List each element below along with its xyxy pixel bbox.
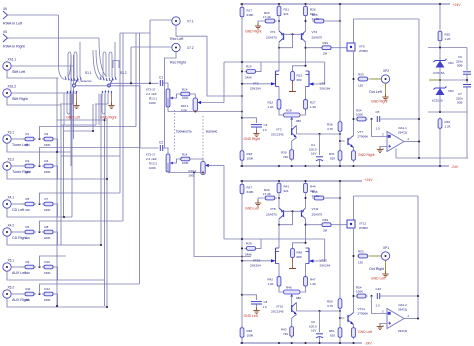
resistor R44 920 xyxy=(304,181,308,195)
wire bus x71 xyxy=(70,55,72,166)
wire Tuner Left bus xyxy=(40,127,137,140)
wire C8 down xyxy=(256,304,258,309)
svg-text:1.2K: 1.2K xyxy=(445,124,451,128)
wire olive connector gnd xyxy=(385,83,387,96)
wire R26 to VT4 xyxy=(305,195,307,208)
svg-text:2.2 mkF: 2.2 mkF xyxy=(146,92,157,96)
wire link y125 xyxy=(61,124,96,126)
wire Tuner Right shield loop xyxy=(7,170,107,179)
svg-text:VT14: VT14 xyxy=(358,307,366,311)
wire S1.2 wiper out xyxy=(111,82,159,84)
wire R23 top xyxy=(293,243,306,248)
svg-text:VT8: VT8 xyxy=(270,207,276,211)
resistor R17 640K xyxy=(240,5,244,19)
svg-text:R11: R11 xyxy=(26,287,31,291)
wire olive to connector xyxy=(370,78,382,80)
junction bottom signal xyxy=(241,255,243,257)
wire R21 to VT1 xyxy=(278,195,280,208)
wire R23 top xyxy=(293,66,306,71)
wire y62 long xyxy=(224,61,325,63)
junction base tie xyxy=(291,210,293,212)
transistor VT3 2SC1345 xyxy=(292,126,297,138)
svg-text:GND Left: GND Left xyxy=(371,277,385,281)
wire VT7 emit xyxy=(353,325,355,328)
junction y131 xyxy=(92,130,94,132)
junction -rail x319.5 xyxy=(318,165,320,167)
junction C4 tap xyxy=(318,310,320,312)
wire C5 right xyxy=(380,118,419,120)
wire bus x72 xyxy=(71,94,73,217)
wire bus x139 xyxy=(139,33,141,284)
junction loop cd left xyxy=(63,216,65,218)
wire AUX Right bus xyxy=(40,284,140,294)
ground at op-amp DA1.1 xyxy=(377,147,383,153)
junction R34 C5 xyxy=(370,118,372,120)
connector X7.2 Rec Right xyxy=(172,43,180,51)
junction R19 left xyxy=(241,247,243,249)
capacitor C3 1.0 xyxy=(251,125,262,127)
resistor R53 130 xyxy=(357,254,369,258)
wire bottom signal x194 xyxy=(194,173,251,257)
wire Rec Right drop x131 xyxy=(130,47,132,85)
wire x467 mid xyxy=(466,74,468,83)
wire AUX Left shield loop xyxy=(7,271,105,280)
junction gate left xyxy=(241,260,243,262)
transistor VT5 2SK264 JFET xyxy=(306,71,314,87)
wire VT5 gate feed xyxy=(314,62,325,84)
wire VT5 gate feed xyxy=(314,239,325,261)
resistor R7 180K xyxy=(42,202,55,206)
svg-text:180K: 180K xyxy=(44,208,51,212)
ground at C3 xyxy=(253,131,259,137)
wire VT7 base line xyxy=(340,317,345,319)
wire y134 to x340 xyxy=(297,133,341,135)
wire R40 to gnd xyxy=(258,198,263,202)
capacitor C9 100.0 16V xyxy=(316,334,323,338)
wire Rec Left to balance tap xyxy=(176,25,242,96)
ground at op-amp DA1.2 xyxy=(377,324,383,330)
junction -rail x305.5 xyxy=(304,342,306,344)
resistor R11 44K xyxy=(23,292,36,296)
wire base tie xyxy=(284,210,302,212)
wire base tie xyxy=(284,33,302,35)
svg-text:50В: 50В xyxy=(457,64,462,68)
wire C1 to R13.1 xyxy=(163,83,168,89)
resistor R29 2M xyxy=(321,46,333,50)
wire y62 long xyxy=(224,238,325,240)
svg-text:VT16: VT16 xyxy=(276,305,284,309)
wire AUX Right to R11 xyxy=(11,293,25,295)
svg-text:R53: R53 xyxy=(358,249,364,253)
wire R29 right xyxy=(332,47,348,49)
transistor VT13 2SK264 JFET xyxy=(306,248,314,264)
wire R19 up xyxy=(258,239,262,248)
wire bus x101 xyxy=(100,94,102,245)
svg-text:C2: C2 xyxy=(159,141,163,145)
svg-text:R14: R14 xyxy=(182,152,188,156)
junction rail R21 xyxy=(278,180,280,182)
wire -24V rail chtop xyxy=(240,165,449,167)
potentiometer R16.1 200K xyxy=(193,98,197,111)
wire base down xyxy=(279,34,293,47)
wire CD Right out jog xyxy=(55,232,58,245)
svg-text:R28: R28 xyxy=(286,109,292,113)
wire Rec Left drop x150 xyxy=(149,20,151,83)
svg-text:VT1: VT1 xyxy=(270,30,276,34)
junction caps mid xyxy=(466,79,468,81)
svg-text:RIAA In Right: RIAA In Right xyxy=(3,45,25,49)
wire x224 drop xyxy=(223,62,225,103)
wire column x242 xyxy=(241,4,243,166)
svg-text:R29: R29 xyxy=(323,41,329,45)
wire VT3 emit xyxy=(292,138,297,149)
svg-text:180K: 180K xyxy=(44,236,51,240)
wire y112 link xyxy=(428,111,467,113)
junction -rail x242 xyxy=(241,342,243,344)
svg-text:2SC1345: 2SC1345 xyxy=(271,310,284,314)
svg-text:2П903: 2П903 xyxy=(359,49,368,53)
wire op-amp -in xyxy=(380,147,387,149)
svg-text:44K: 44K xyxy=(25,236,30,240)
wire R22 to pot xyxy=(279,287,283,292)
connector X5.2 AUX Right xyxy=(3,290,11,298)
transistor VT1 2SA970 xyxy=(279,31,284,42)
wire Rec Left left xyxy=(150,19,172,21)
wire RIAA In Right xyxy=(8,37,100,39)
junction op-amp out xyxy=(418,140,420,142)
svg-text:+24V: +24V xyxy=(453,3,462,7)
svg-text:Stift Right: Stift Right xyxy=(12,97,28,101)
wire x440 to VD1 xyxy=(439,42,441,60)
junction -rail x305.5 xyxy=(304,165,306,167)
svg-text:VD2: VD2 xyxy=(448,89,454,93)
svg-text:44K: 44K xyxy=(25,271,30,275)
junction -rail x279 xyxy=(278,165,280,167)
resistor R4 180K xyxy=(42,164,55,168)
svg-text:VT7: VT7 xyxy=(358,130,364,134)
wire fb to hypotenuse xyxy=(395,149,397,159)
junction VT7 base xyxy=(339,140,341,142)
junction gate left xyxy=(241,83,243,85)
resistor R49 2M xyxy=(321,223,333,227)
svg-text:R13.2: R13.2 xyxy=(149,162,157,166)
ground at R23 xyxy=(292,81,294,92)
wire Stift Right shield loop xyxy=(7,97,61,105)
wire +24V rail chtop xyxy=(240,3,450,5)
wire x467 top xyxy=(466,48,468,71)
wire R14 to balance pot xyxy=(192,159,203,163)
junction C4 tap xyxy=(318,133,320,135)
svg-text:1.0: 1.0 xyxy=(263,305,267,309)
junction column C5 xyxy=(418,118,420,120)
svg-text:240K: 240K xyxy=(245,253,252,257)
svg-text:+24V: +24V xyxy=(365,178,374,182)
junction loop tuner xyxy=(56,151,58,153)
junction R20 right xyxy=(278,20,280,22)
svg-text:RIAA In Left: RIAA In Left xyxy=(3,22,22,26)
wire volume bottoms y172.5 xyxy=(167,163,169,173)
wire column x340 xyxy=(339,181,341,343)
svg-text:1.2K: 1.2K xyxy=(445,37,451,41)
wire C2 to R13.2 xyxy=(163,148,168,154)
capacitor C1 2.2mkF xyxy=(160,80,162,86)
svg-text:100K: 100K xyxy=(247,333,254,337)
connector X7.1 Rec Left xyxy=(172,17,180,25)
op-amp DA1.2 xyxy=(387,309,404,329)
wire CD Left to R5 xyxy=(11,203,25,205)
resistor R39 240K xyxy=(245,247,258,251)
svg-text:2.2 mkF: 2.2 mkF xyxy=(146,157,157,161)
junction +rail x242 xyxy=(241,3,243,5)
wire VT4 coll down xyxy=(305,219,307,243)
svg-text:XP2: XP2 xyxy=(383,69,389,73)
svg-text:2SA970: 2SA970 xyxy=(312,213,323,217)
wire C4 lead xyxy=(319,134,321,155)
svg-text:2947Д: 2947Д xyxy=(398,308,407,312)
svg-text:2SA970: 2SA970 xyxy=(266,213,277,217)
wire x58 drop to S1.1 xyxy=(58,15,60,66)
svg-text:730: 730 xyxy=(283,332,288,336)
wire op-amp out xyxy=(404,318,418,320)
wire R25 right xyxy=(326,20,340,22)
wire R22 to pot xyxy=(279,110,283,115)
svg-text:X5.1: X5.1 xyxy=(8,259,15,263)
wire Rec Right to bottom xyxy=(165,52,177,148)
wire CD Right to R6 xyxy=(11,231,25,233)
junction y111 x242 xyxy=(241,110,243,112)
junction rec right tap xyxy=(130,82,132,84)
svg-text:180K: 180K xyxy=(44,298,51,302)
wire VT4 coll down xyxy=(305,42,307,66)
svg-text:100K: 100K xyxy=(356,290,363,294)
wire +24V rail chbot xyxy=(240,180,362,182)
junction x440 rail xyxy=(439,3,441,5)
wire bus x61 xyxy=(60,105,62,245)
resistor R6 44K xyxy=(23,230,36,234)
ground at R20 xyxy=(255,23,261,29)
wire y158 left part xyxy=(396,157,419,159)
op-amp DA1.1 xyxy=(387,132,404,152)
svg-text:921: 921 xyxy=(284,189,289,193)
resistor R10 180K xyxy=(42,265,55,269)
wire R16.2 wiper out xyxy=(209,164,224,166)
svg-text:17.4K: 17.4K xyxy=(263,192,271,196)
transistor VT16 2SC1345 xyxy=(292,303,297,315)
wire C4 down xyxy=(319,160,321,166)
wire link y33 xyxy=(120,32,150,34)
svg-text:R49: R49 xyxy=(323,218,329,222)
resistor R45 17.4K xyxy=(312,196,326,200)
resistor R48 680 xyxy=(291,247,295,260)
svg-text:R1: R1 xyxy=(26,132,30,136)
svg-text:Out Right: Out Right xyxy=(369,267,384,271)
connector X4.2 CD Right xyxy=(3,228,11,236)
wire caps mid tie xyxy=(440,79,467,81)
connector XS1.2 Stift Right xyxy=(3,89,11,97)
svg-text:X4.1: X4.1 xyxy=(8,196,15,200)
switch S1.2 input selector xyxy=(95,42,117,125)
junction column C5 xyxy=(417,295,419,297)
junction VT1 coll xyxy=(278,47,280,49)
resistor R37 640K xyxy=(240,182,244,196)
wire right column x418 xyxy=(417,196,419,319)
svg-text:2SK264: 2SK264 xyxy=(320,263,331,267)
svg-text:XP1: XP1 xyxy=(383,246,389,250)
junction loop cd right xyxy=(100,244,102,246)
svg-text:C8: C8 xyxy=(264,300,268,304)
junction rail R26 xyxy=(304,180,306,182)
junction R34 xyxy=(352,118,354,120)
svg-text:1.2K: 1.2K xyxy=(268,105,274,109)
svg-text:4.7K: 4.7K xyxy=(327,127,333,131)
svg-text:VT3: VT3 xyxy=(276,128,282,132)
wire staple S1.2 feed xyxy=(113,61,119,69)
svg-text:2SK264: 2SK264 xyxy=(320,86,331,90)
resistor R19 240K xyxy=(245,70,258,74)
junction R29 tap xyxy=(304,224,306,226)
ground at XP2 xyxy=(382,94,388,100)
wire Stift Left signal xyxy=(11,65,73,67)
wire C5 right xyxy=(380,295,418,297)
svg-text:R46: R46 xyxy=(286,286,292,290)
svg-text:VT10: VT10 xyxy=(253,259,261,263)
svg-text:GND Left: GND Left xyxy=(245,207,259,211)
wire C4 down xyxy=(319,337,321,343)
wire VT5 src down xyxy=(305,87,307,99)
transistor VT2 2SK264 JFET xyxy=(242,71,279,87)
wire R27 to pot xyxy=(301,110,306,115)
junction CD Left tap xyxy=(38,203,40,205)
wire R21 to VT1 xyxy=(278,18,280,31)
wire x440 top xyxy=(439,4,441,29)
junction rec left tap xyxy=(149,82,151,84)
wire VT1 coll down xyxy=(278,219,280,248)
svg-text:640K: 640K xyxy=(247,13,254,17)
wire C4 lead xyxy=(319,311,321,332)
wire S1.1 wiper out xyxy=(76,86,159,148)
connector X3.1 Tuner Left xyxy=(3,135,11,143)
wire Tuner Left to R1 xyxy=(11,138,25,140)
wire op-amp +in xyxy=(372,119,388,137)
svg-text:R12: R12 xyxy=(45,287,51,291)
junction -rail x340 xyxy=(339,342,341,344)
ground at switch S1.1 input selector xyxy=(76,94,78,105)
svg-text:100K: 100K xyxy=(247,156,254,160)
svg-text:XS1.2: XS1.2 xyxy=(8,85,17,89)
transistor VT7 2T908A xyxy=(348,136,354,148)
wire VT2 src down xyxy=(278,87,280,99)
svg-text:GND Right: GND Right xyxy=(371,100,387,104)
resistor R42 1.2K xyxy=(277,275,281,289)
svg-text:620: 620 xyxy=(330,156,335,160)
svg-text:CD Left: CD Left xyxy=(12,208,24,212)
wire C8 lead xyxy=(242,295,257,300)
svg-text:C3: C3 xyxy=(264,123,268,127)
junction CD Right tap xyxy=(38,231,40,233)
wire CD Left bus xyxy=(40,193,121,204)
svg-text:R33: R33 xyxy=(358,72,364,76)
connector X3.2 Tuner Right xyxy=(3,162,11,170)
ground at C8 xyxy=(253,308,259,314)
wire olive zener mid xyxy=(429,79,440,81)
junction R29 tap xyxy=(304,47,306,49)
svg-text:640K: 640K xyxy=(247,190,254,194)
dashed link balance gang xyxy=(202,116,204,161)
capacitor C2 2.2mkF xyxy=(160,145,162,151)
wire VT7 coll up xyxy=(353,296,355,313)
wire op-amp -in xyxy=(380,324,387,326)
svg-text:44K: 44K xyxy=(25,170,30,174)
svg-text:1.0: 1.0 xyxy=(376,304,381,308)
wire R29 right xyxy=(332,224,348,226)
junction x194 top xyxy=(193,171,195,173)
wire x440 bottom xyxy=(439,129,441,166)
wire Tuner Right to R2 xyxy=(11,165,25,167)
wire bend into S1.2 contact b xyxy=(96,50,103,78)
svg-text:VT2: VT2 xyxy=(253,82,259,86)
svg-text:1.0: 1.0 xyxy=(376,127,381,131)
resistor R51 620 xyxy=(338,326,342,340)
wire R29 left xyxy=(306,47,322,49)
resistor R54 100K xyxy=(356,294,368,298)
svg-text:16V: 16V xyxy=(311,329,316,333)
junction R23 VT5 xyxy=(304,242,306,244)
svg-text:X3.2: X3.2 xyxy=(8,158,15,162)
svg-text:2SA970: 2SA970 xyxy=(266,36,277,40)
resistor R34 100K xyxy=(356,117,368,121)
wire Tuner Left out jog xyxy=(55,139,58,152)
resistor R22 1.2K xyxy=(277,98,281,112)
svg-text:X3.1: X3.1 xyxy=(8,131,15,135)
transistor VT9 JFET xyxy=(347,43,355,51)
svg-text:X5.2: X5.2 xyxy=(8,286,15,290)
resistor R12 180K xyxy=(42,292,55,296)
wire C3 down xyxy=(256,127,258,132)
resistor R43 730 xyxy=(290,325,294,339)
connector XP1 Out Right xyxy=(381,252,389,260)
svg-text:X6: X6 xyxy=(3,7,7,11)
wire AUX Right out jog xyxy=(55,294,58,307)
svg-text:XS1.1: XS1.1 xyxy=(8,58,17,62)
svg-text:921: 921 xyxy=(284,12,289,16)
junction loop aux xyxy=(56,305,58,307)
junction AUX Left tap xyxy=(38,266,40,268)
junction R23 VT5 xyxy=(304,65,306,67)
junction rail R21 xyxy=(278,3,280,5)
wire link y131 xyxy=(64,130,94,132)
svg-text:Out Left: Out Left xyxy=(369,90,382,94)
junction x340 y134 xyxy=(339,310,341,312)
junction R19 left xyxy=(241,70,243,72)
wire VT1 coll down xyxy=(278,42,280,71)
potentiometer R46 680 xyxy=(284,290,301,294)
wire VD1 VD2 xyxy=(439,68,441,89)
junction rail R26 xyxy=(304,3,306,5)
resistor R25 17.4K xyxy=(312,19,326,23)
junction loop auxR xyxy=(106,306,108,308)
svg-text:730: 730 xyxy=(283,155,288,159)
capacitor C10 1.0 xyxy=(377,293,379,299)
junction -rail x242 xyxy=(241,165,243,167)
svg-text:R9: R9 xyxy=(26,260,30,264)
svg-text:100K: 100K xyxy=(149,166,156,170)
transistor VT11 2SA970 xyxy=(302,208,306,219)
connector XS1.1 Stift Left xyxy=(3,62,11,70)
wire bend into S1.2 contact a xyxy=(93,50,100,80)
wire Tuner Right bus xyxy=(40,148,140,167)
switch S1.1 input selector xyxy=(60,42,82,125)
svg-text:R19: R19 xyxy=(246,65,252,69)
